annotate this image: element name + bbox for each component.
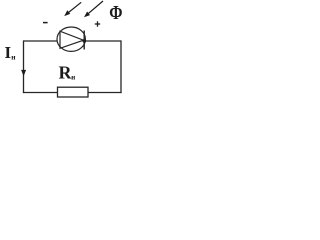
wire: left side (23, 40, 25, 93)
resistor R body (58, 87, 89, 97)
label + (anode polarity) (95, 21, 100, 26)
diode triangle (60, 31, 84, 48)
svg-text:Φ: Φ (109, 1, 122, 23)
wire: top-left segment (24, 40, 58, 42)
light arrow 1 (64, 2, 81, 16)
diode cathode bar (83, 31, 85, 50)
wire: bottom-left segment (23, 92, 58, 94)
label - (cathode polarity) (43, 22, 48, 24)
wire: right side (120, 40, 122, 93)
light arrow 2 (84, 1, 103, 17)
node dot at cathode (83, 39, 87, 43)
svg-text:н: н (11, 53, 16, 62)
photodiode circle (57, 27, 85, 51)
wire: top-right segment (85, 40, 121, 42)
wire: bottom-right segment (88, 92, 122, 94)
svg-text:н: н (71, 73, 75, 81)
current direction arrow (21, 70, 26, 76)
